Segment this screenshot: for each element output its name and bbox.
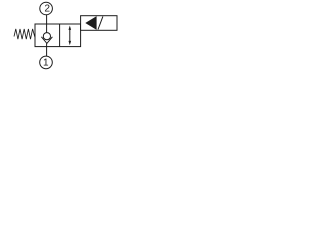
valve body box <box>35 24 81 47</box>
solenoid slash <box>98 16 103 29</box>
wire port2 stem <box>46 15 48 34</box>
body divider <box>59 24 61 47</box>
flow arrow head up <box>69 26 72 30</box>
port 1 circle <box>40 56 53 69</box>
wire port1 stem <box>46 43 48 56</box>
port 2 label <box>45 4 50 11</box>
check valve seat <box>41 37 52 44</box>
port 2 circle <box>40 2 53 15</box>
solenoid box <box>81 16 117 31</box>
flow arrow head down <box>69 41 72 45</box>
flow arrow shaft <box>69 29 71 43</box>
check valve poppet ball <box>43 33 50 40</box>
spring <box>14 29 35 39</box>
solenoid armature triangle <box>85 16 96 30</box>
port 1 label <box>44 59 48 66</box>
